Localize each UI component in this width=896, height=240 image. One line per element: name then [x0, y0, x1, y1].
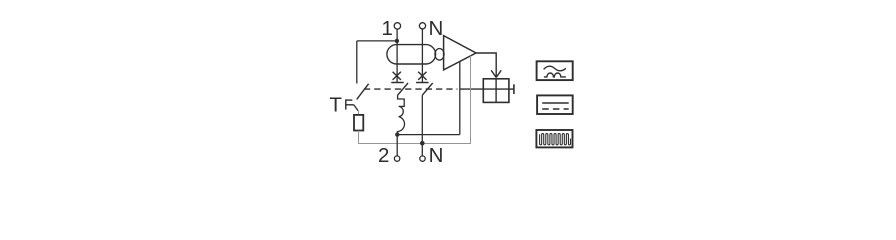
- coupling link to trip unit (solid): [460, 88, 484, 90]
- terminal 2: [378, 144, 400, 167]
- test button pusher: [354, 105, 358, 111]
- node: coil output junction: [395, 132, 399, 136]
- op-amp U1 (amplifier triangle): [444, 36, 476, 70]
- dense oscillation: [540, 134, 571, 145]
- resistor R (test resistor): [354, 115, 363, 131]
- wire: junction to amplifier supply (line side, horizontal): [397, 134, 460, 136]
- wire: pole N blade to terminal N (bottom): [421, 95, 423, 156]
- svg-text:N: N: [429, 17, 444, 40]
- wire: amplifier output: [476, 53, 496, 77]
- wire: test branch vertical stub: [356, 41, 358, 84]
- contact cross pole 1: [393, 72, 401, 80]
- switch blade pole N: [422, 83, 433, 95]
- test switch blade: [357, 84, 369, 100]
- trip coil (series overcurrent release): [397, 95, 404, 134]
- sine wave: [544, 66, 566, 71]
- secondary winding: [435, 49, 444, 61]
- terminal N (bottom): [420, 144, 444, 167]
- pulsating half waves: [544, 73, 566, 77]
- waveform box: AC + pulsating DC (type A): [537, 61, 573, 80]
- wire: resistor to neutral bus, neutral bus to amplifier supply (grey): [359, 56, 471, 144]
- wire: test blade to resistor: [358, 111, 360, 115]
- dashed line: [542, 108, 569, 110]
- terminal 1: [382, 17, 401, 40]
- fixed contact tick pole N: [416, 82, 428, 84]
- trip solenoid (flux coupling release): [483, 79, 509, 103]
- node: line-side junction: [395, 39, 399, 43]
- wire: pole N from terminal N through toroid to fixed contact: [421, 29, 423, 83]
- test button actuator cap: [345, 99, 354, 109]
- current transformer toroid W1: [387, 45, 436, 64]
- actuator bar: [509, 84, 514, 94]
- waveform box: smooth DC: [537, 95, 573, 114]
- wire: junction to test branch (horizontal): [357, 40, 397, 42]
- arrow into trip solenoid: [491, 70, 501, 77]
- svg-text:1: 1: [382, 17, 393, 40]
- fixed contact tick pole 1: [391, 82, 403, 84]
- wire: pole 1 from terminal 1 through toroid to fixed contact: [396, 29, 398, 83]
- solid line: [542, 102, 569, 104]
- svg-text:N: N: [429, 144, 444, 167]
- svg-text:2: 2: [378, 144, 389, 167]
- switch blade pole 1: [398, 83, 409, 95]
- mechanical coupling (dashed): [364, 88, 458, 90]
- wire: junction to terminal 2: [396, 135, 398, 156]
- svg-text:T: T: [329, 93, 342, 116]
- waveform box: high frequency: [536, 130, 572, 147]
- wire: supply to amplifier (line side, vertical): [459, 61, 461, 134]
- node: neutral junction: [420, 141, 425, 146]
- terminal N (top): [419, 17, 443, 40]
- contact cross pole N: [418, 72, 426, 80]
